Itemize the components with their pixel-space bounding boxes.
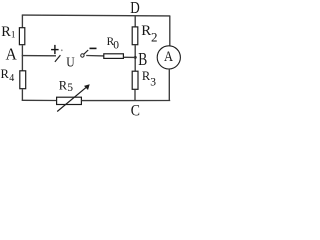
- svg-text:C: C: [131, 103, 140, 120]
- wire right upper (top corner to ammeter): [169, 16, 171, 46]
- svg-text:D: D: [130, 0, 140, 17]
- wire node A to source plus terminal: [22, 55, 56, 57]
- ammeter A1 circle: [157, 46, 180, 69]
- svg-text:R: R: [141, 23, 151, 39]
- svg-text:1: 1: [11, 29, 16, 39]
- rheostat R5 arrow: [57, 86, 87, 111]
- source right terminal tick: [84, 50, 89, 54]
- svg-text:B: B: [138, 49, 147, 69]
- rheostat R5 box: [57, 97, 82, 104]
- source plus sign: [51, 49, 59, 51]
- wire R2 to node B: [134, 45, 136, 71]
- wire left upper (corner to R1): [21, 15, 23, 28]
- node B junction dot: [134, 56, 137, 59]
- svg-text:R: R: [1, 67, 10, 81]
- wire bottom left segment: [22, 99, 57, 101]
- wire D stub (top wire to R2): [134, 16, 136, 27]
- source left terminal dot: [61, 49, 63, 51]
- svg-text:U: U: [66, 55, 74, 70]
- source minus sign: [90, 47, 97, 49]
- svg-text:A: A: [6, 45, 18, 64]
- wire R3 to node C: [134, 90, 136, 101]
- wire right terminal to R0: [86, 55, 104, 57]
- svg-text:A: A: [164, 49, 173, 65]
- wire left lower (R4 to bottom corner): [21, 89, 23, 101]
- resistor R1: [19, 28, 24, 45]
- source left terminal tick: [55, 55, 61, 62]
- resistor R4: [20, 71, 26, 89]
- wire left mid (R1 to node A): [21, 45, 23, 70]
- source right terminal circle: [81, 54, 84, 57]
- wire R0 to node B: [124, 56, 136, 58]
- svg-text:4: 4: [9, 73, 14, 84]
- wire right lower (ammeter to bottom corner): [168, 69, 170, 101]
- svg-text:3: 3: [150, 76, 156, 88]
- resistor R3: [132, 71, 138, 89]
- svg-text:2: 2: [151, 29, 158, 44]
- resistor R2: [132, 27, 138, 45]
- wire top: [22, 14, 170, 17]
- svg-text:0: 0: [113, 40, 119, 52]
- svg-text:5: 5: [67, 82, 73, 94]
- wire bottom right segment: [81, 100, 170, 102]
- resistor R0: [104, 54, 124, 59]
- svg-text:R: R: [1, 24, 11, 40]
